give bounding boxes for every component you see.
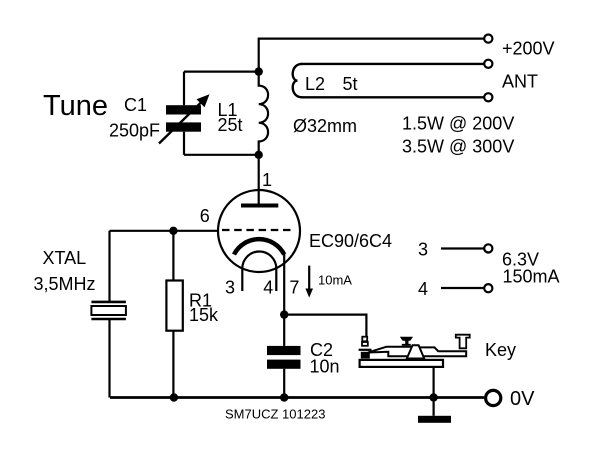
wire key base to ground rail xyxy=(433,367,435,398)
hump xyxy=(407,345,424,358)
svg-text:1: 1 xyxy=(262,170,272,190)
svg-text:Tune: Tune xyxy=(43,90,108,122)
node tank bottom junction xyxy=(255,151,263,159)
wire anode supply: tank top to +200V terminal xyxy=(259,39,484,72)
svg-text:25t: 25t xyxy=(218,115,243,135)
node cathode junction xyxy=(280,310,288,318)
svg-text:4: 4 xyxy=(418,279,428,299)
wire anode lead pin 1 xyxy=(258,155,260,206)
wire grid to crystal xyxy=(110,230,219,232)
svg-text:6: 6 xyxy=(200,206,210,226)
wire tank top xyxy=(184,70,259,72)
terminal ANT upper xyxy=(484,60,492,68)
svg-text:L2: L2 xyxy=(305,74,325,94)
terminal +200V xyxy=(484,35,492,43)
node tank top junction xyxy=(255,67,263,75)
morse key xyxy=(359,335,470,367)
grid (dashed) xyxy=(222,229,294,231)
inductor L1 25t xyxy=(259,72,268,155)
capacitor C1 (variable, 250pF) xyxy=(159,94,210,143)
svg-text:C1: C1 xyxy=(124,95,147,115)
wire C1 top lead xyxy=(183,72,185,106)
terminal ANT lower xyxy=(484,93,492,101)
crystal XTAL 3,5MHz xyxy=(91,231,126,398)
inductor L2 link winding xyxy=(293,64,302,97)
svg-text:EC90/6C4: EC90/6C4 xyxy=(309,231,392,251)
svg-text:7: 7 xyxy=(289,277,299,297)
node grid R1 junction xyxy=(169,227,177,235)
svg-text:0V: 0V xyxy=(510,388,535,410)
svg-text:XTAL: XTAL xyxy=(43,248,87,268)
svg-text:150mA: 150mA xyxy=(503,267,560,287)
svg-text:Key: Key xyxy=(485,340,516,360)
svg-text:+200V: +200V xyxy=(502,39,555,59)
svg-text:10n: 10n xyxy=(310,356,340,376)
triode U1 envelope EC90/6C4 xyxy=(218,190,300,272)
base xyxy=(360,360,443,367)
svg-text:3: 3 xyxy=(418,240,428,260)
svg-text:ANT: ANT xyxy=(502,72,538,92)
resistor R1 15k xyxy=(166,231,182,398)
svg-text:3: 3 xyxy=(225,277,235,297)
contact post xyxy=(362,337,367,342)
wire L2 bottom to ANT terminal xyxy=(301,96,484,98)
wire cathode pin 7 down xyxy=(283,252,285,315)
svg-text:4: 4 xyxy=(263,277,273,297)
knob xyxy=(400,337,413,346)
anode plate xyxy=(241,204,278,208)
svg-text:1.5W @ 200V: 1.5W @ 200V xyxy=(402,114,514,134)
heater xyxy=(242,252,276,292)
wire C1 bottom lead xyxy=(183,132,185,155)
right handle xyxy=(456,335,470,349)
wire cathode to key xyxy=(284,315,366,337)
wire tank bottom xyxy=(184,154,259,156)
node key ground junction xyxy=(429,393,437,401)
svg-text:Ø32mm: Ø32mm xyxy=(293,116,357,136)
terminal 0V xyxy=(486,390,501,405)
svg-text:3.5W @ 300V: 3.5W @ 300V xyxy=(402,137,514,157)
wire L2 top to ANT terminal xyxy=(301,63,484,65)
lever left arm xyxy=(368,347,413,357)
svg-text:15k: 15k xyxy=(189,305,219,325)
capacitor C2 10n xyxy=(267,315,301,398)
svg-text:3,5MHz: 3,5MHz xyxy=(34,274,96,294)
ground xyxy=(418,398,451,423)
svg-text:5t: 5t xyxy=(343,74,358,94)
wire 0V rail xyxy=(110,396,484,399)
svg-text:250pF: 250pF xyxy=(109,120,160,140)
heater terminal pin 4 xyxy=(441,284,492,292)
node C2 ground junction xyxy=(280,393,288,401)
node R1 ground junction xyxy=(170,393,178,401)
svg-text:10mA: 10mA xyxy=(318,272,352,287)
current arrow 10mA xyxy=(305,266,313,298)
heater terminal pin 3 xyxy=(441,244,492,252)
lever right arm xyxy=(419,347,466,356)
svg-text:SM7UCZ 101223: SM7UCZ 101223 xyxy=(225,406,325,421)
cathode xyxy=(234,239,284,254)
